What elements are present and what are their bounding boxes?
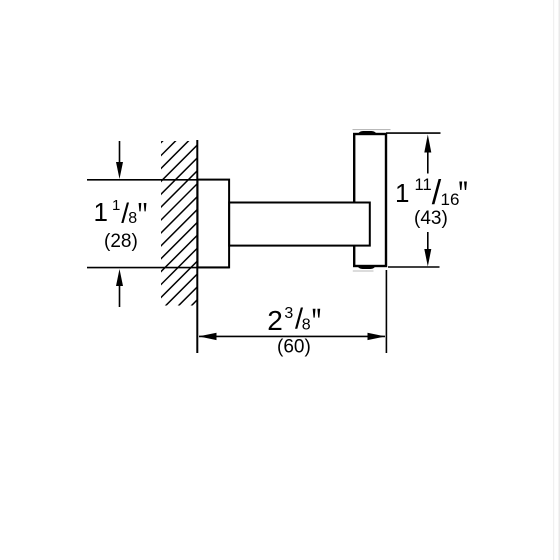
- svg-text:16: 16: [441, 190, 460, 209]
- svg-text:8: 8: [302, 317, 311, 334]
- svg-text:1: 1: [94, 197, 108, 227]
- svg-text:8: 8: [128, 210, 137, 227]
- svg-text:1: 1: [112, 197, 120, 214]
- svg-text:11: 11: [415, 176, 432, 194]
- svg-text:(28): (28): [104, 231, 138, 252]
- svg-text:3: 3: [284, 305, 293, 322]
- svg-text:2: 2: [267, 305, 283, 336]
- svg-text:1: 1: [395, 178, 409, 208]
- svg-text:(60): (60): [277, 337, 311, 358]
- svg-text:(43): (43): [414, 208, 448, 229]
